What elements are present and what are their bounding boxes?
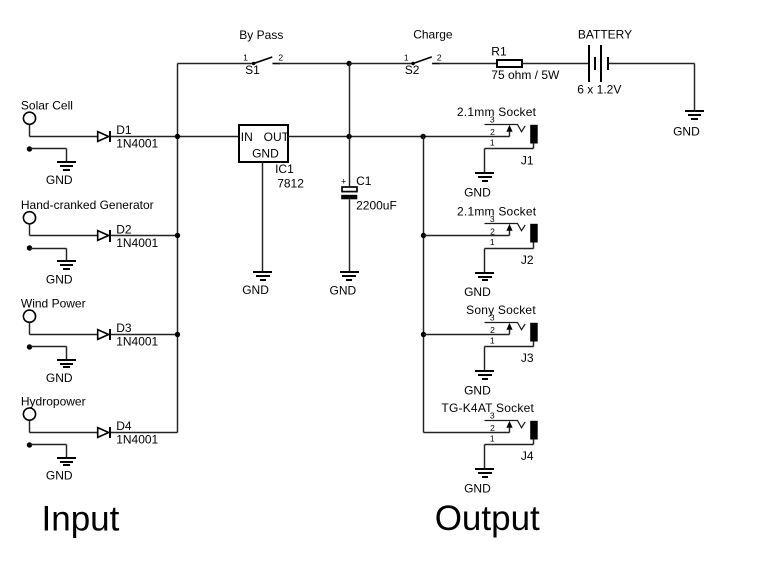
svg-text:3: 3 xyxy=(490,312,495,322)
wire negative terminal 2 xyxy=(30,248,67,250)
svg-text:BATTERY: BATTERY xyxy=(578,28,632,42)
ground input 3 xyxy=(57,360,76,367)
node junction output bus main row xyxy=(420,134,425,139)
node negative terminal 3 xyxy=(27,344,32,349)
wire down to ground input 2 xyxy=(66,249,68,262)
node junction bus row 3 xyxy=(175,332,180,337)
wire J3 sleeve to ground xyxy=(484,347,486,372)
wire top junction down to C1 xyxy=(349,64,351,187)
svg-text:R1: R1 xyxy=(491,45,507,59)
diode D4 1N4001 xyxy=(98,427,110,438)
svg-text:D3: D3 xyxy=(116,321,132,335)
socket J3 xyxy=(485,323,538,347)
node negative terminal 2 xyxy=(27,245,32,250)
wire negative terminal 4 xyxy=(30,444,67,446)
svg-text:GND: GND xyxy=(464,383,491,397)
wire C1 to ground xyxy=(349,200,351,273)
wire J4 sleeve to ground xyxy=(484,445,486,470)
ground J1 xyxy=(475,173,494,181)
svg-text:75 ohm / 5W: 75 ohm / 5W xyxy=(491,68,560,82)
wire output vertical bus xyxy=(423,137,425,433)
svg-text:1: 1 xyxy=(490,433,495,443)
wire terminal 4 to diode xyxy=(30,432,98,434)
svg-text:Hydropower: Hydropower xyxy=(21,395,86,409)
svg-text:2.1mm Socket: 2.1mm Socket xyxy=(457,105,537,119)
node input terminal 3 xyxy=(23,310,35,322)
diode D2 1N4001 xyxy=(98,230,110,242)
svg-text:7812: 7812 xyxy=(277,176,304,190)
node negative terminal 1 xyxy=(27,146,32,151)
wire terminal 2 down xyxy=(29,224,31,236)
node junction top of C1 xyxy=(346,61,351,66)
wire left vertical bus xyxy=(177,64,179,433)
wire negative terminal 3 xyxy=(30,346,67,348)
ground C1 xyxy=(340,272,359,280)
svg-text:S2: S2 xyxy=(405,63,420,77)
ground battery xyxy=(685,111,704,119)
svg-text:1: 1 xyxy=(490,137,495,147)
svg-text:Output: Output xyxy=(435,499,540,538)
socket J2 xyxy=(485,224,538,249)
svg-text:2: 2 xyxy=(490,226,495,236)
wire negative terminal 1 xyxy=(30,148,67,150)
svg-text:TG-K4AT Socket: TG-K4AT Socket xyxy=(441,401,534,415)
svg-text:GND: GND xyxy=(464,185,491,199)
svg-text:D1: D1 xyxy=(116,123,132,137)
node negative terminal 4 xyxy=(27,442,32,447)
svg-text:GND: GND xyxy=(673,125,700,139)
wire battery to right corner xyxy=(609,63,695,65)
socket J4 xyxy=(485,421,538,445)
svg-text:1: 1 xyxy=(404,52,409,62)
svg-text:1N4001: 1N4001 xyxy=(116,335,158,349)
svg-text:2: 2 xyxy=(490,325,495,335)
switch S1 xyxy=(252,57,280,65)
svg-text:2: 2 xyxy=(490,423,495,433)
ground input 2 xyxy=(57,261,76,269)
svg-text:2: 2 xyxy=(278,52,283,62)
resistor R1 xyxy=(497,60,522,67)
svg-text:IC1: IC1 xyxy=(275,162,294,176)
switch S2 xyxy=(411,57,439,65)
wire terminal 1 to diode xyxy=(30,136,98,138)
svg-text:IN: IN xyxy=(241,130,253,144)
node junction bus row 1 xyxy=(175,134,180,139)
svg-text:2: 2 xyxy=(490,127,495,137)
node junction bus row 2 xyxy=(175,233,180,238)
svg-text:Wind Power: Wind Power xyxy=(21,297,86,311)
ground J3 xyxy=(475,371,494,379)
svg-text:2: 2 xyxy=(437,52,442,62)
svg-text:By Pass: By Pass xyxy=(239,28,283,42)
svg-text:Charge: Charge xyxy=(413,28,453,42)
svg-text:OUT: OUT xyxy=(264,130,290,144)
socket J1 xyxy=(485,125,538,149)
wire S1 to C1 junction xyxy=(279,63,350,65)
wire terminal 1 down xyxy=(29,125,31,137)
node junction output bus row 3 xyxy=(421,332,426,337)
node input terminal 1 xyxy=(23,112,35,124)
diode D3 1N4001 xyxy=(98,329,110,340)
svg-text:1: 1 xyxy=(490,335,495,345)
svg-text:1N4001: 1N4001 xyxy=(116,137,158,151)
wire J1 sleeve to ground xyxy=(484,149,486,174)
svg-text:GND: GND xyxy=(46,371,73,385)
svg-text:GND: GND xyxy=(330,283,357,297)
wire terminal 3 down xyxy=(29,323,31,335)
svg-text:+: + xyxy=(341,177,346,187)
wire pin 2 feed J2 xyxy=(424,235,510,237)
wire pin 2 feed J4 xyxy=(424,432,510,434)
svg-text:GND: GND xyxy=(464,285,491,299)
svg-text:Sony Socket: Sony Socket xyxy=(466,303,536,317)
diode D1 1N4001 xyxy=(98,131,110,142)
node input terminal 2 xyxy=(23,212,35,224)
svg-text:J3: J3 xyxy=(521,351,534,365)
wire main row IC1 OUT to J1 xyxy=(288,136,510,138)
wire diode 4 to bus xyxy=(111,432,178,434)
svg-text:GND: GND xyxy=(252,147,279,161)
wire bus junction to IC1 IN xyxy=(178,136,239,138)
node junction C1 main row xyxy=(346,134,351,139)
svg-text:GND: GND xyxy=(46,272,73,286)
svg-text:GND: GND xyxy=(464,481,491,495)
svg-text:2200uF: 2200uF xyxy=(356,199,397,213)
wire top bus to S1 xyxy=(178,63,254,65)
svg-text:GND: GND xyxy=(242,283,269,297)
svg-text:S1: S1 xyxy=(245,63,260,77)
wire diode 1 to bus xyxy=(111,136,178,138)
svg-text:1N4001: 1N4001 xyxy=(116,236,158,250)
ground IC1 xyxy=(253,272,272,280)
wire terminal 2 to diode xyxy=(30,235,98,237)
wire down to ground input 3 xyxy=(66,347,68,360)
svg-text:2.1mm Socket: 2.1mm Socket xyxy=(457,205,537,219)
svg-text:J4: J4 xyxy=(521,449,534,463)
svg-text:1N4001: 1N4001 xyxy=(116,433,158,447)
ground input 4 xyxy=(57,458,76,465)
svg-text:6 x 1.2V: 6 x 1.2V xyxy=(577,82,621,96)
svg-text:D2: D2 xyxy=(116,223,132,237)
node input terminal 4 xyxy=(23,408,35,420)
wire terminal 4 down xyxy=(29,421,31,433)
ground J2 xyxy=(475,273,494,280)
svg-text:Hand-cranked Generator: Hand-cranked Generator xyxy=(21,198,154,212)
svg-text:D4: D4 xyxy=(116,419,132,433)
svg-text:1: 1 xyxy=(243,52,248,62)
wire junction to S2 xyxy=(350,63,414,65)
ground J4 xyxy=(475,469,494,477)
svg-text:Input: Input xyxy=(42,500,120,539)
wire pin 2 feed J3 xyxy=(424,334,510,336)
regulator IC1 7812 xyxy=(239,125,290,162)
wire S2 to R1 xyxy=(439,63,497,65)
svg-text:J1: J1 xyxy=(521,153,534,167)
svg-text:3: 3 xyxy=(490,214,495,224)
wire terminal 3 to diode xyxy=(30,334,98,336)
svg-text:GND: GND xyxy=(46,469,73,483)
wire down to ground input 4 xyxy=(66,445,68,458)
svg-text:J2: J2 xyxy=(521,253,534,267)
svg-text:C1: C1 xyxy=(356,174,372,188)
capacitor C1 2200uF xyxy=(341,177,357,200)
ground input 1 xyxy=(57,162,76,170)
wire down to ground input 1 xyxy=(66,149,68,162)
svg-text:Solar Cell: Solar Cell xyxy=(21,99,73,113)
battery BT1 6x1.2V xyxy=(589,45,608,82)
node junction output bus row 2 xyxy=(421,233,426,238)
svg-text:GND: GND xyxy=(46,173,73,187)
wire IC1 GND pin down xyxy=(262,162,264,273)
wire right corner down to ground xyxy=(694,64,696,112)
svg-text:3: 3 xyxy=(490,410,495,420)
wire diode 2 to bus xyxy=(111,235,178,237)
svg-text:1: 1 xyxy=(490,237,495,247)
wire J2 sleeve to ground xyxy=(484,249,486,273)
wire R1 to battery xyxy=(522,63,589,65)
wire diode 3 to bus xyxy=(111,334,178,336)
svg-text:3: 3 xyxy=(490,114,495,124)
